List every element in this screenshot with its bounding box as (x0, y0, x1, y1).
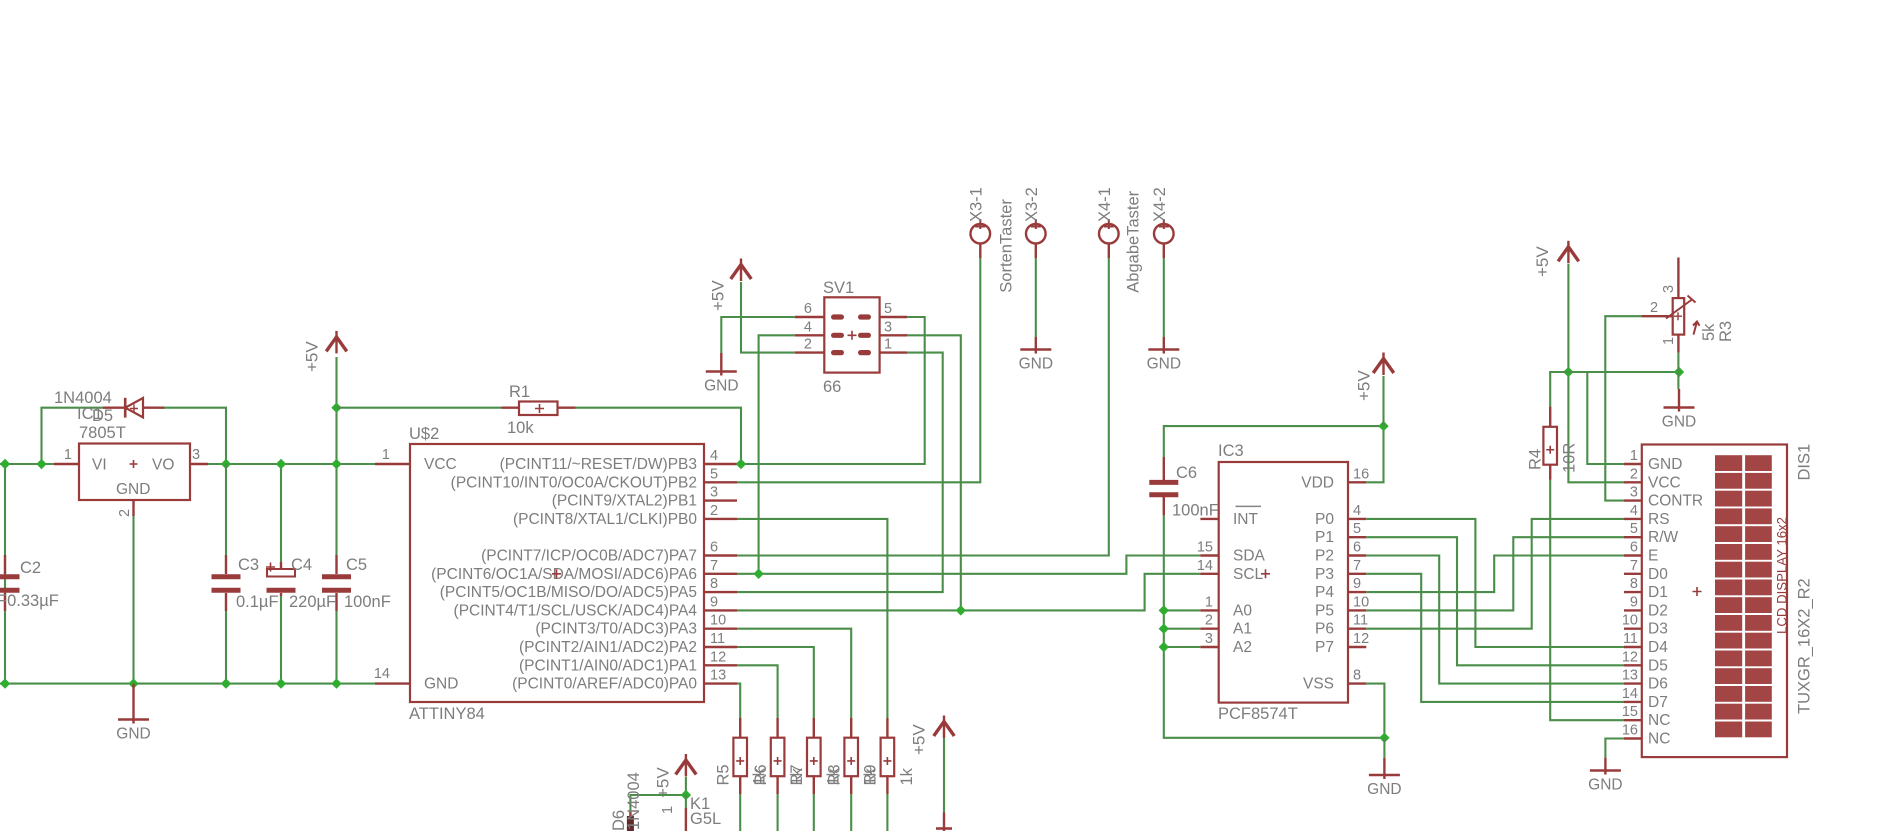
svg-text:DIS1: DIS1 (1796, 444, 1814, 481)
svg-text:3: 3 (710, 485, 718, 501)
LCD pin 3 CONTR stub (1624, 499, 1642, 501)
svg-text:10R: 10R (1561, 443, 1579, 473)
LCD pin 2 VCC stub (1624, 481, 1642, 483)
7805 pin 1 stub (54, 463, 79, 465)
wire R5 down (739, 794, 741, 831)
wire A0 stub link (1164, 609, 1201, 611)
pin 10 (PCINT3/T0/ADC3)PA3 stub (704, 628, 737, 630)
svg-text:9: 9 (710, 594, 718, 610)
svg-text:A0: A0 (1233, 602, 1252, 619)
svg-text:C2: C2 (20, 559, 41, 577)
power +5V arrow at IC3 (1373, 359, 1394, 374)
node junction 7805 gnd on rail (128, 678, 138, 688)
node junction A1 (1159, 624, 1169, 634)
svg-text:D0: D0 (1648, 566, 1668, 583)
svg-text:(PCINT5/OC1B/MISO/DO/ADC5)PA5: (PCINT5/OC1B/MISO/DO/ADC5)PA5 (440, 584, 697, 601)
svg-text:11: 11 (1353, 613, 1368, 629)
capacitor C6 100nF (1149, 457, 1178, 515)
wire diode to C3 column (164, 408, 226, 464)
svg-text:3: 3 (1205, 631, 1213, 647)
node junction PB3 (736, 459, 746, 469)
wire PA6 to IC3 SDA (737, 556, 1200, 574)
IC3 pin 15 SDA stub (1200, 554, 1218, 556)
svg-text:LCD DISPLAY 16x2: LCD DISPLAY 16x2 (1774, 517, 1790, 634)
wire R1 right to PB3 (576, 408, 742, 464)
svg-text:X3-1: X3-1 (967, 187, 985, 222)
svg-text:R4: R4 (1527, 449, 1545, 470)
svg-text:6: 6 (804, 301, 812, 317)
INT overline (1236, 505, 1262, 507)
svg-text:D3: D3 (1648, 621, 1668, 638)
LCD pin 9 D2 stub (1624, 609, 1642, 611)
svg-text:ATTINY84: ATTINY84 (409, 705, 485, 723)
svg-text:9: 9 (1353, 576, 1361, 592)
wire C5 / +5V column (335, 357, 337, 555)
svg-text:100nF: 100nF (1172, 502, 1219, 520)
wire A1 stub link (1164, 628, 1201, 630)
svg-text:SCL: SCL (1233, 566, 1264, 583)
svg-text:10: 10 (1622, 613, 1638, 629)
svg-text:10: 10 (1353, 594, 1369, 610)
LCD pin 13 D6 stub (1624, 682, 1642, 684)
svg-text:7: 7 (710, 558, 718, 574)
IC3 pin 10 P5 stub (1348, 609, 1366, 611)
wire IC3 P4 to LCD pin 6 E (1366, 556, 1624, 593)
wire X4-1 down to PA7 row (737, 258, 1109, 556)
LCD pin 14 D7 stub (1624, 701, 1642, 703)
svg-text:X4-2: X4-2 (1151, 187, 1169, 222)
svg-text:GND: GND (1662, 414, 1696, 431)
svg-text:3: 3 (192, 447, 200, 463)
svg-text:5: 5 (710, 466, 718, 482)
svg-text:P6: P6 (1315, 621, 1334, 638)
IC IC3 PCF8574T body (1219, 462, 1348, 703)
svg-text:SDA: SDA (1233, 548, 1266, 565)
svg-text:1: 1 (64, 447, 72, 463)
IC3 pin 1 A0 stub (1200, 609, 1218, 611)
IC3 pin 13 INT stub (1200, 518, 1218, 520)
svg-text:13: 13 (1622, 668, 1638, 684)
wire bottom GND rail (0, 683, 375, 685)
wire R9 down (886, 794, 888, 831)
resistor R5 1k (733, 718, 747, 794)
IC3 pin 11 P6 stub (1348, 628, 1366, 630)
svg-text:CONTR: CONTR (1648, 493, 1703, 510)
svg-text:2: 2 (1650, 300, 1658, 316)
svg-text:4: 4 (1353, 503, 1361, 519)
wire SV1 pin 3 SCK down to PA4 row (907, 335, 961, 610)
svg-text:9: 9 (1630, 594, 1638, 610)
node junction diode down at C3 column (221, 459, 231, 469)
svg-text:GND: GND (424, 676, 458, 693)
svg-text:R3: R3 (1717, 321, 1735, 342)
wire +5V junction to R4 top (1550, 372, 1568, 407)
LCD cell grid (1715, 455, 1772, 737)
svg-text:NC: NC (1648, 731, 1670, 748)
wire SV1 pin 6 to ground (721, 317, 794, 353)
node junction C5 top rail (331, 459, 341, 469)
wire PA3 down to R8 (737, 629, 851, 718)
svg-text:3: 3 (884, 319, 892, 335)
svg-text:AbgabeTaster: AbgabeTaster (1124, 190, 1142, 292)
LCD pin 15 NC stub (1624, 719, 1642, 721)
svg-text:16: 16 (1622, 723, 1638, 739)
svg-text:GND: GND (1588, 777, 1622, 794)
7805 pin 3 stub (190, 463, 208, 465)
capacitor C4 polarized (266, 562, 296, 596)
pin 12 (PCINT1/AIN0/ADC1)PA1 stub (704, 664, 737, 666)
SV1 pin 6 stub (795, 316, 825, 318)
connector pad X4-2 (1154, 224, 1174, 244)
svg-text:6: 6 (710, 540, 718, 556)
svg-text:D5: D5 (1648, 657, 1668, 674)
node junction +5V / R1 (331, 403, 341, 413)
svg-text:C3: C3 (238, 556, 259, 574)
wire R4 down to LCD pin 15 (1550, 480, 1624, 720)
svg-text:0.1µF: 0.1µF (236, 593, 279, 611)
ground under X3-2 (1035, 337, 1037, 354)
pin 7 (PCINT6/OC1A/SDA/MOSI/ADC6)PA6 stub (704, 573, 737, 575)
svg-text:P7: P7 (1315, 639, 1334, 656)
wire gnd rail down (1383, 738, 1385, 758)
svg-text:3: 3 (1661, 285, 1677, 293)
svg-text:(PCINT2/AIN1/ADC2)PA2: (PCINT2/AIN1/ADC2)PA2 (519, 639, 697, 656)
svg-text:4: 4 (804, 319, 812, 335)
wire X3-2 down to ground (1035, 258, 1037, 337)
wire X4-2 down to ground (1163, 258, 1165, 337)
svg-text:1: 1 (660, 806, 676, 814)
wire IC3 P6 to LCD pin 4 RS (1366, 519, 1624, 629)
wire IC3 P0 to LCD pin 11 D4 (1366, 519, 1624, 647)
LCD pin 16 NC stub (1624, 737, 1642, 739)
wire R3 wiper to LCD CONTR (1641, 315, 1672, 317)
voltage regulator IC1 7805T (79, 444, 190, 501)
svg-text:TUXGR_16X2_R2: TUXGR_16X2_R2 (1796, 578, 1814, 714)
LCD pin 11 D4 stub (1624, 646, 1642, 648)
svg-text:7: 7 (1630, 558, 1638, 574)
svg-text:8: 8 (1630, 576, 1638, 592)
resistor R1 10k (502, 402, 576, 416)
svg-text:PCF8574T: PCF8574T (1218, 705, 1298, 723)
svg-text:D7: D7 (1648, 694, 1668, 711)
svg-text:R7: R7 (788, 764, 806, 785)
pin 9 (PCINT4/T1/SCL/USCK/ADC4)PA4 stub (704, 609, 737, 611)
svg-text:1k: 1k (898, 767, 916, 785)
potentiometer R3 5k (1666, 258, 1700, 353)
IC3 pin 6 P2 stub (1348, 554, 1366, 556)
pin 1 VCC stub (375, 463, 410, 465)
svg-text:+5V: +5V (1533, 246, 1552, 277)
svg-text:10: 10 (710, 613, 726, 629)
svg-text:SortenTaster: SortenTaster (998, 199, 1016, 293)
svg-text:A2: A2 (1233, 639, 1252, 656)
wire +5V to SV1 pin 2 (741, 282, 795, 353)
svg-text:VO: VO (152, 457, 174, 474)
svg-text:+5V: +5V (302, 341, 321, 372)
svg-text:2: 2 (1205, 613, 1213, 629)
resistor R9 1k (881, 718, 895, 794)
ground under X4-2 (1163, 337, 1165, 354)
capacitor C3 (212, 555, 241, 611)
wire IC3 P1 to LCD pin 12 D5 (1366, 537, 1624, 665)
wire R3 pin1 to gnd junction (1677, 353, 1679, 389)
svg-text:GND: GND (704, 378, 738, 395)
IC3 pin 3 A2 stub (1200, 646, 1218, 648)
connector pad X3-1 (971, 224, 991, 244)
wire C4 column (280, 464, 282, 562)
wire C6 top to VDD rail (1164, 426, 1384, 482)
wire SV1 pin 1 MISO down to PA5 row (737, 353, 943, 592)
resistor R8 1k (844, 718, 858, 794)
pin 6 (PCINT7/ICP/OC0B/ADC7)PA7 stub (704, 554, 737, 556)
ground under IC3 (1383, 758, 1385, 779)
wire PA4 to IC3 SCL (737, 574, 1200, 611)
wire 7805 GND down to rail (132, 516, 134, 684)
svg-text:GND: GND (116, 726, 150, 743)
pin 5 (PCINT10/INT0/OC0A/CKOUT)PB2 stub (704, 481, 737, 483)
wire GND horizontal at LCD top (1568, 371, 1679, 373)
ground under R3 (1678, 389, 1680, 412)
node junction C3 gnd (221, 678, 231, 688)
SV1 pin 1 stub (880, 351, 907, 353)
wire C6 bottom to A0 A1 A2 chain and VSS gnd rail (1164, 515, 1385, 738)
svg-text:R8: R8 (826, 764, 844, 785)
svg-text:RS: RS (1648, 511, 1670, 528)
IC U$2 ATTINY84 body (410, 444, 704, 702)
display DIS1 TUXGR_16X2_R2 body (1642, 445, 1787, 758)
power +5V arrow bottom right (934, 722, 955, 737)
svg-text:11: 11 (1623, 631, 1638, 647)
svg-text:D6: D6 (1648, 676, 1668, 693)
svg-text:(PCINT7/ICP/OC0B/ADC7)PA7: (PCINT7/ICP/OC0B/ADC7)PA7 (481, 548, 697, 565)
node junction R3 pin1 / GND (1674, 367, 1684, 377)
wire PA1 down to R6 (737, 665, 778, 718)
svg-text:X4-1: X4-1 (1096, 187, 1114, 222)
svg-text:D2: D2 (1648, 602, 1668, 619)
node junction C5 gnd (331, 678, 341, 688)
svg-text:6: 6 (1630, 540, 1638, 556)
svg-text:SV1: SV1 (823, 279, 854, 297)
connector pad X3-2 (1026, 224, 1046, 244)
svg-text:100nF: 100nF (344, 593, 391, 611)
SV1 pin 4 stub (795, 334, 825, 336)
node junction A0 (1159, 605, 1169, 615)
LCD pin 7 D0 stub (1624, 573, 1642, 575)
node junction A2 (1159, 642, 1169, 652)
svg-text:P1: P1 (1315, 529, 1334, 546)
wire top rail VCC (right of 7805) (208, 463, 375, 465)
svg-text:+5V: +5V (1355, 370, 1374, 401)
origin cross LCD (1693, 587, 1702, 596)
svg-text:NC: NC (1648, 712, 1670, 729)
LCD pin 6 E stub (1624, 554, 1642, 556)
svg-text:7: 7 (1353, 558, 1361, 574)
connector SV1 body (824, 297, 879, 372)
svg-text:(PCINT6/OC1A/SDA/MOSI/ADC6)PA6: (PCINT6/OC1A/SDA/MOSI/ADC6)PA6 (431, 566, 697, 583)
svg-text:2: 2 (710, 503, 718, 519)
svg-text:GND: GND (1019, 356, 1053, 373)
svg-text:P5: P5 (1315, 602, 1334, 619)
svg-text:P2: P2 (1315, 548, 1334, 565)
node junction GND rail left (0, 678, 10, 688)
IC3 pin 4 P0 stub (1348, 518, 1366, 520)
svg-text:(PCINT11/~RESET/DW)PB3: (PCINT11/~RESET/DW)PB3 (500, 456, 697, 473)
svg-text:GND: GND (1147, 356, 1181, 373)
svg-text:(PCINT0/AREF/ADC0)PA0: (PCINT0/AREF/ADC0)PA0 (512, 676, 697, 693)
svg-text:5k: 5k (1700, 323, 1718, 341)
svg-text:14: 14 (1622, 686, 1638, 702)
power +5V arrow at SV1 (731, 265, 752, 280)
wire R7 down (813, 794, 815, 831)
svg-text:3: 3 (1630, 485, 1638, 501)
origin cross PA6 row (552, 569, 561, 578)
svg-text:2: 2 (804, 337, 812, 353)
node junction diode branch (36, 459, 46, 469)
svg-text:13: 13 (710, 668, 726, 684)
wire left input vertical (4, 464, 6, 684)
wire PB0 down to R9 (737, 519, 887, 718)
7805 pin 2 stub down (132, 500, 134, 516)
svg-text:E: E (1648, 548, 1658, 565)
resistor R4 10R (1543, 407, 1557, 480)
svg-text:C6: C6 (1176, 464, 1197, 482)
svg-text:8: 8 (1353, 668, 1361, 684)
node junction +5V VDD (1378, 421, 1388, 431)
svg-text:1: 1 (1661, 337, 1677, 345)
wire C3 column (225, 464, 227, 555)
svg-text:5: 5 (1353, 521, 1361, 537)
svg-text:2: 2 (1630, 466, 1638, 482)
LCD pin 1 GND stub (1624, 463, 1642, 465)
SV1 pin 3 stub (880, 334, 907, 336)
wire IC3 P5 to LCD pin 5 R/W (1366, 537, 1624, 610)
svg-text:15: 15 (1197, 540, 1213, 556)
SV1 pads (831, 314, 871, 355)
svg-text:1: 1 (1630, 448, 1638, 464)
svg-text:1: 1 (382, 447, 390, 463)
pin 2 (PCINT8/XTAL1/CLKI)PB0 stub (704, 518, 737, 520)
node junction K1 coil (681, 790, 691, 800)
svg-text:14: 14 (1197, 558, 1213, 574)
wire X3-1 down to PB2 row (737, 258, 980, 482)
node junction C4 gnd (276, 678, 286, 688)
svg-text:15: 15 (1622, 704, 1638, 720)
wire LCD pin16 to ground (1605, 739, 1624, 758)
node junction rail left (0, 459, 10, 469)
power +5V arrow at relay K1 (676, 760, 697, 775)
capacitor C2 (0, 555, 20, 611)
wire A2 stub link (1164, 646, 1201, 648)
LCD pin 4 RS stub (1624, 518, 1642, 520)
svg-text:+5V: +5V (654, 767, 673, 798)
IC3 pin 9 P4 stub (1348, 591, 1366, 593)
wire diode branch up (42, 408, 104, 464)
svg-text:VI: VI (92, 457, 107, 474)
wire +5V to K1 and D6 (630, 777, 686, 812)
wire +5V stem to VDD rail (1382, 376, 1384, 426)
svg-text:R/W: R/W (1648, 529, 1679, 546)
svg-text:12: 12 (1353, 631, 1369, 647)
svg-text:R5: R5 (715, 764, 733, 785)
LCD pin 8 D1 stub (1624, 591, 1642, 593)
svg-text:VSS: VSS (1303, 676, 1334, 693)
ground under 7805 (132, 684, 134, 724)
svg-text:14: 14 (374, 666, 390, 682)
wire PA0 down to R5 (737, 684, 740, 718)
pin 8 (PCINT5/OC1B/MISO/DO/ADC5)PA5 stub (704, 591, 737, 593)
wire R1 left (337, 407, 502, 409)
node junction PA4 / SCK (956, 605, 966, 615)
origin cross IC3 (1261, 569, 1270, 578)
pin 14 GND stub (375, 682, 410, 684)
ground under SV1 pin6 (720, 353, 722, 376)
svg-text:D4: D4 (1648, 639, 1668, 656)
IC3 pin 12 P7 stub (1348, 646, 1366, 648)
wire +5V down to LCD VCC (1568, 264, 1624, 482)
LCD pin 10 D3 stub (1624, 628, 1642, 630)
svg-text:12: 12 (710, 649, 726, 665)
wire +5V bottom right down (943, 738, 945, 813)
svg-text:+5V: +5V (909, 724, 928, 755)
IC3 pin 14 SCL stub (1200, 573, 1218, 575)
wire SV1 pin 4 MOSI down to PA6 (759, 335, 795, 574)
pin 13 (PCINT0/AREF/ADC0)PA0 stub (704, 682, 737, 684)
svg-text:F0.33µF: F0.33µF (0, 592, 59, 610)
svg-text:VDD: VDD (1301, 474, 1334, 491)
svg-text:(PCINT8/XTAL1/CLKI)PB0: (PCINT8/XTAL1/CLKI)PB0 (513, 511, 697, 528)
svg-text:(PCINT4/T1/SCL/USCK/ADC4)PA4: (PCINT4/T1/SCL/USCK/ADC4)PA4 (454, 602, 698, 619)
wire PA2 down to R7 (737, 647, 814, 718)
svg-text:A1: A1 (1233, 621, 1252, 638)
svg-text:+5V: +5V (708, 280, 727, 311)
svg-text:C4: C4 (291, 556, 312, 574)
relay K1 pin 1 stub (685, 795, 687, 808)
svg-text:D1: D1 (1648, 584, 1668, 601)
svg-text:(PCINT3/T0/ADC3)PA3: (PCINT3/T0/ADC3)PA3 (535, 621, 697, 638)
pin 4 (PCINT11/~RESET/DW)PB3 stub (704, 463, 737, 465)
svg-text:5: 5 (1630, 521, 1638, 537)
power +5V arrow left (326, 337, 347, 352)
svg-text:66: 66 (823, 378, 841, 396)
IC3 pin 2 A1 stub (1200, 628, 1218, 630)
svg-text:6: 6 (1353, 540, 1361, 556)
svg-text:1: 1 (1205, 594, 1213, 610)
svg-text:P0: P0 (1315, 511, 1334, 528)
svg-text:X3-2: X3-2 (1023, 187, 1041, 222)
connector pad X4-1 (1099, 224, 1119, 244)
ground under LCD (1604, 758, 1606, 775)
LCD pin 12 D5 stub (1624, 664, 1642, 666)
wire IC3 P3 to LCD pin 14 D7 (1366, 574, 1624, 702)
power +5V arrow at LCD (1558, 247, 1579, 261)
svg-text:U$2: U$2 (409, 425, 439, 443)
resistor R6 1k (771, 718, 785, 794)
IC3 pin 16 VDD stub (1348, 481, 1366, 483)
svg-text:1: 1 (884, 337, 892, 353)
svg-text:R1: R1 (509, 383, 530, 401)
diode D6 1N4004 (cut off) (629, 812, 631, 818)
SV1 pin 2 stub (795, 351, 825, 353)
node junction PA6 / MOSI (753, 569, 763, 579)
svg-text:(PCINT10/INT0/OC0A/CKOUT)PB2: (PCINT10/INT0/OC0A/CKOUT)PB2 (451, 474, 697, 491)
svg-text:2: 2 (117, 509, 133, 517)
svg-text:GND: GND (1367, 781, 1401, 798)
svg-text:5: 5 (884, 301, 892, 317)
svg-text:GND: GND (1648, 456, 1682, 473)
ground bottom right (cut off) (943, 813, 945, 832)
pin 3 (PCINT9/XTAL2)PB1 stub (704, 499, 737, 501)
node junction +5V LCD (1563, 367, 1573, 377)
